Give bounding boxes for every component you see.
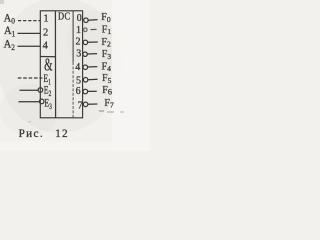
separator enable group	[40, 56, 55, 58]
wire F0	[88, 19, 97, 22]
wire F5	[88, 78, 98, 80]
svg-text:0: 0	[77, 13, 82, 24]
bubble E3	[39, 99, 44, 104]
IC body U1 (decoder) outline	[40, 11, 82, 118]
svg-text:1: 1	[43, 13, 48, 24]
bubble out 1	[84, 28, 88, 32]
wire A0	[18, 20, 40, 22]
bubble out 3	[83, 52, 87, 56]
svg-text:4: 4	[43, 41, 49, 52]
wire E2	[20, 89, 39, 91]
wire E3	[19, 101, 40, 103]
wire F2	[88, 41, 98, 43]
bubble out 4	[83, 65, 88, 70]
scan specks	[0, 0, 4, 4]
wire F3	[87, 53, 97, 55]
svg-text:5: 5	[76, 75, 81, 86]
bubble out 5	[83, 78, 88, 83]
wire F7	[88, 103, 98, 105]
bubble out 6	[83, 89, 88, 94]
svg-text:Рис. 12: Рис. 12	[19, 128, 69, 140]
bubble out 0	[84, 18, 89, 23]
bubble E2	[38, 88, 43, 93]
svg-text:4: 4	[75, 62, 80, 73]
wire F4	[88, 66, 98, 68]
svg-text:6: 6	[76, 86, 81, 97]
divider right field lower	[72, 62, 74, 118]
divider right field	[72, 11, 74, 62]
bubble out 2	[83, 40, 88, 45]
wire F6	[88, 90, 97, 92]
svg-text:2: 2	[43, 27, 48, 38]
svg-text:7: 7	[78, 100, 83, 111]
svg-text:F6: F6	[102, 85, 112, 97]
svg-text:1: 1	[76, 25, 81, 36]
svg-text:3: 3	[76, 49, 81, 60]
wire F1	[91, 28, 97, 30]
paper background	[0, 0, 150, 151]
wire E1	[18, 77, 43, 79]
divider left field	[54, 11, 56, 118]
wire A2	[18, 45, 41, 47]
svg-text:2: 2	[76, 37, 81, 48]
bubble out 7	[83, 102, 88, 107]
wire A1	[18, 32, 41, 34]
svg-text:DC: DC	[58, 12, 71, 23]
scan mottling	[0, 0, 122, 133]
